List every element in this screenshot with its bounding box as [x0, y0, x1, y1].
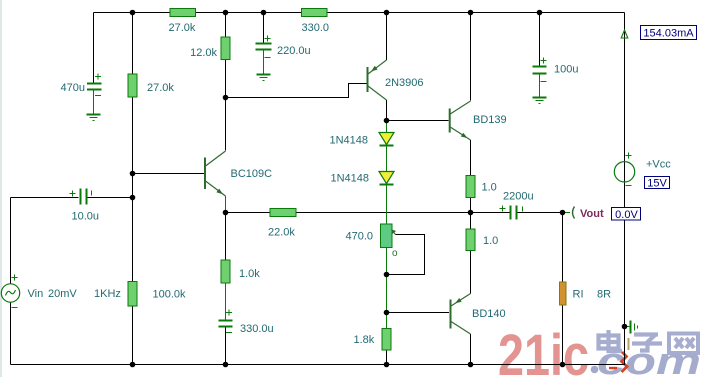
source V1 Vin [1, 275, 77, 308]
resistor R2 330.0 horizontal [302, 9, 330, 35]
wire top rail [94, 12, 625, 14]
wire bottom rail [11, 364, 625, 366]
svg-text:20mV: 20mV [48, 288, 77, 300]
wire mid rail left [226, 212, 270, 214]
svg-text:220.0u: 220.0u [277, 45, 311, 57]
box 15V [645, 177, 670, 190]
resistor R5 22.0k horizontal [268, 209, 296, 239]
resistor R6 1.0k [221, 260, 260, 283]
svg-text:com: com [597, 341, 701, 377]
wire pot wiper loop [387, 235, 425, 275]
svg-text:0.0V: 0.0V [615, 209, 638, 221]
edge strip [0, 0, 2, 377]
wire column bias divider [132, 13, 134, 365]
ground under 470u [87, 115, 101, 121]
wire 2200u to vout node [517, 212, 563, 214]
svg-text:15V: 15V [647, 178, 667, 190]
svg-text:21ic: 21ic [498, 323, 589, 377]
probe Vout [563, 207, 604, 221]
watermark char wang [669, 334, 698, 354]
watermark red mark [609, 338, 629, 372]
svg-text:27.0k: 27.0k [169, 22, 196, 34]
wire 1.0 lower to BD140 emitter [470, 251, 472, 294]
wire 12k column [225, 13, 227, 98]
svg-text:154.03mA: 154.03mA [643, 28, 694, 40]
node bias and base dots [130, 171, 136, 177]
svg-text:330.0u: 330.0u [240, 323, 274, 335]
box 154.03mA [641, 26, 697, 40]
wire BC109C base [133, 173, 205, 175]
resistor R8 1.8k [354, 329, 392, 351]
node top rail dots [130, 10, 136, 16]
transistor Q4 BD140 [451, 294, 506, 335]
svg-text:2N3906: 2N3906 [385, 77, 424, 89]
svg-text:330.0: 330.0 [302, 22, 330, 34]
svg-text:Vin: Vin [28, 288, 44, 300]
watermark 21ic logo [498, 323, 598, 377]
svg-text:22.0k: 22.0k [268, 227, 295, 239]
svg-text:1.8k: 1.8k [354, 334, 375, 346]
watermark char dian [599, 330, 623, 351]
svg-text:1N4148: 1N4148 [330, 173, 369, 185]
capacitor C6 2200u [500, 191, 534, 220]
resistor RI 8R load [560, 282, 612, 305]
node bottom rail dots [130, 362, 136, 368]
diode D1 1N4148 [329, 121, 394, 172]
svg-text:12.0k: 12.0k [190, 47, 217, 59]
wire BC109C emitter down [225, 196, 227, 213]
svg-text:RI: RI [573, 289, 584, 301]
wire 2N3906 base [226, 84, 367, 98]
svg-text:o: o [392, 248, 398, 259]
resistor R7 100.0k [128, 282, 186, 307]
potentiometer P1 470.0 [345, 213, 398, 275]
svg-text:+Vcc: +Vcc [646, 159, 671, 171]
svg-text:100.0k: 100.0k [153, 289, 187, 301]
svg-text:BC109C: BC109C [231, 168, 273, 180]
ground under 220.0u [257, 75, 271, 81]
wire 220u top [263, 13, 265, 44]
resistor R10 1.0 lower [466, 229, 498, 251]
box 0.0V [612, 208, 641, 222]
capacitor C4 330.0u [218, 310, 273, 336]
resistor R3 27.0k vertical [128, 74, 174, 97]
svg-text:8R: 8R [597, 289, 611, 301]
svg-text:1.0: 1.0 [483, 235, 498, 247]
node pot dots [384, 272, 390, 278]
wire mid rail to 2200u [471, 212, 511, 214]
wire left loop vertical [10, 198, 12, 365]
wire pot node down to 1.8k [386, 275, 388, 329]
wire vout load column [562, 213, 564, 365]
svg-text:1N4148: 1N4148 [329, 135, 368, 147]
wire BC109C collector [225, 98, 227, 151]
node mid rail dots [223, 210, 229, 216]
wire 2N3906 collector down [386, 100, 388, 121]
wire 2N3906 emitter up [386, 13, 388, 61]
source V2 +Vcc [614, 153, 671, 186]
svg-text:BD140: BD140 [472, 308, 506, 320]
svg-text:470u: 470u [61, 82, 85, 94]
wire BD140 collector down [470, 334, 472, 365]
svg-text:1.0: 1.0 [482, 182, 497, 194]
wire input cap right [87, 197, 133, 199]
wire 100u top [539, 13, 541, 67]
watermark char zi [632, 335, 662, 351]
resistor R1 27.0k horizontal [169, 9, 196, 35]
wire 1.8k to bottom rail [386, 350, 388, 365]
svg-text:470.0: 470.0 [345, 231, 373, 243]
wire mid rail center [296, 212, 471, 214]
wire 1.0k / 330u column [225, 213, 227, 365]
diode D2 1N4148 [330, 172, 394, 213]
capacitor C3 100u [532, 58, 578, 98]
svg-text:Vout: Vout [580, 208, 604, 220]
resistor R9 1.0 upper [466, 176, 497, 198]
svg-text:1KHz: 1KHz [94, 288, 121, 300]
capacitor C2 220.0u [256, 36, 311, 75]
wire BD139 collector up [470, 13, 472, 101]
label 1KHz [94, 288, 121, 300]
resistor R4 12.0k [190, 37, 230, 60]
wire between 1.0 resistors [470, 198, 472, 230]
transistor Q2 2N3906 [368, 60, 424, 100]
current probe arrow [621, 30, 628, 38]
wire pot node to BD140 base [387, 312, 450, 314]
wire input cap left [11, 197, 79, 199]
wire 470u top [93, 13, 95, 84]
ground right side [625, 321, 638, 334]
capacitor C5 10.0u [70, 189, 100, 223]
capacitor C1 470u [61, 74, 102, 115]
svg-text:100u: 100u [554, 64, 578, 76]
svg-text:1.0k: 1.0k [239, 268, 260, 280]
svg-text:27.0k: 27.0k [147, 82, 174, 94]
ground under 100u [533, 98, 547, 104]
wire BD139 emitter down [470, 140, 472, 176]
wire right rail [624, 13, 626, 366]
transistor Q1 BC109C [205, 151, 272, 196]
watermark com [597, 341, 701, 377]
svg-text:BD139: BD139 [473, 114, 507, 126]
svg-text:2200u: 2200u [503, 191, 534, 203]
wire diode node to BD139 base [387, 120, 449, 122]
transistor Q3 BD139 [450, 101, 507, 140]
svg-text:10.0u: 10.0u [72, 211, 100, 223]
